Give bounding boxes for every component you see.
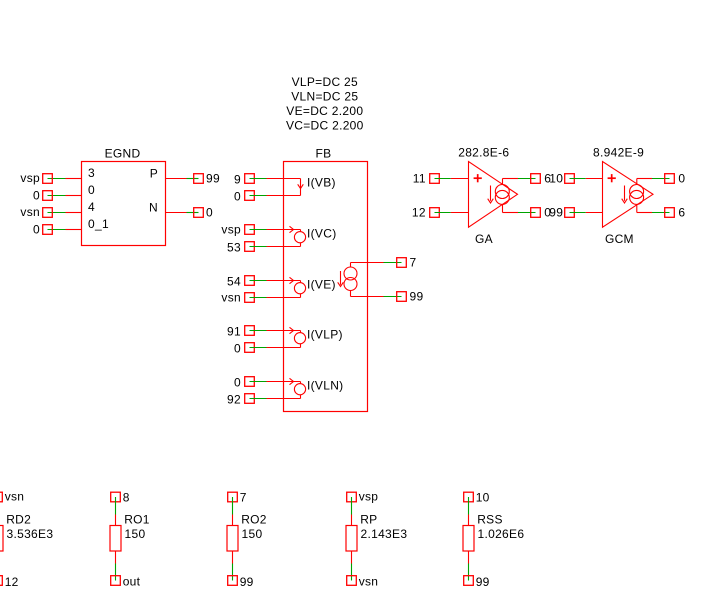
svg-text:150: 150 <box>125 527 146 541</box>
current arrow of GA <box>488 186 494 204</box>
wire 0 to I(VLN) <box>250 381 301 383</box>
wire 0 to I(VLP) <box>250 347 301 349</box>
op-amp style VCCS GCM triangle <box>603 162 654 228</box>
svg-text:3: 3 <box>88 166 95 180</box>
port 10 (input of GCM) <box>549 172 574 186</box>
wire vsn to I(VE) <box>250 297 301 299</box>
svg-text:8.942E-9: 8.942E-9 <box>593 146 644 160</box>
wire RP to vsn <box>351 551 353 581</box>
svg-text:0: 0 <box>234 341 241 355</box>
svg-text:150: 150 <box>242 527 263 541</box>
svg-text:0: 0 <box>206 206 213 220</box>
wire vsp to RP <box>351 497 353 526</box>
svg-text:VE=DC 2.200: VE=DC 2.200 <box>286 104 363 118</box>
node 7 <box>397 256 417 270</box>
port 12 (input of GA) <box>412 206 439 220</box>
port vsp <box>20 171 52 185</box>
port 99 (input of GCM) <box>549 206 574 220</box>
svg-text:0: 0 <box>234 189 241 203</box>
source circles of GA <box>495 185 509 205</box>
op-amp style VCCS GA triangle <box>469 162 518 228</box>
svg-text:vsp: vsp <box>359 489 379 503</box>
svg-text:99: 99 <box>240 575 254 589</box>
port 54 <box>227 274 254 288</box>
resistor RP body <box>346 526 357 552</box>
svg-text:53: 53 <box>227 240 241 254</box>
svg-text:out: out <box>123 575 141 589</box>
wire GA output to 0 <box>503 204 536 212</box>
svg-text:RD2: RD2 <box>6 512 31 526</box>
wire to EGND pin 4 <box>48 212 82 214</box>
svg-text:vsn: vsn <box>221 291 241 305</box>
port 91 <box>227 324 254 338</box>
port vsp <box>221 223 254 237</box>
wire 91 to I(VLP) <box>250 330 301 332</box>
resistor RSS body <box>463 526 474 552</box>
svg-text:9: 9 <box>234 172 241 186</box>
source circles of GCM <box>630 185 644 205</box>
svg-text:12: 12 <box>412 206 426 220</box>
node 10 (top of RSS) <box>464 491 490 505</box>
wire F source to node 99 <box>351 296 402 298</box>
svg-text:7: 7 <box>410 256 417 270</box>
wire 54 to I(VE) <box>250 280 301 282</box>
wire RSS to 99 <box>468 551 470 581</box>
block EGND body <box>82 162 166 246</box>
wire to EGND pin 3 <box>48 178 82 180</box>
svg-text:7: 7 <box>240 491 247 505</box>
node 99 (bottom of RSS) <box>464 575 490 589</box>
svg-text:I(VC): I(VC) <box>307 227 337 241</box>
node vsn (bottom of RP) <box>347 575 379 589</box>
wire 92 to I(VLN) <box>250 398 301 400</box>
svg-text:FB: FB <box>316 146 332 160</box>
current source F (output) <box>338 263 357 297</box>
wire 10 to RSS <box>468 497 470 526</box>
resistor RO1 body <box>110 526 121 552</box>
svg-text:4: 4 <box>88 200 95 214</box>
port vsn <box>221 291 254 305</box>
svg-text:RP: RP <box>360 512 377 526</box>
port vsn <box>20 205 52 219</box>
svg-text:I(VLN): I(VLN) <box>307 379 343 393</box>
wire 7 to RO2 <box>232 497 234 526</box>
svg-text:vsn: vsn <box>5 489 25 503</box>
wire RO1 to out <box>115 551 117 581</box>
current sense I(VB) <box>298 179 304 196</box>
svg-text:11: 11 <box>413 172 426 186</box>
node out (bottom of RO1) <box>111 575 141 589</box>
svg-text:RO1: RO1 <box>124 512 150 526</box>
svg-text:0_1: 0_1 <box>88 217 109 231</box>
svg-text:8: 8 <box>123 491 130 505</box>
wire 99 to GCM <box>570 212 603 214</box>
wire 8 to RO1 <box>115 497 117 526</box>
wire 12 to GA <box>435 212 469 214</box>
svg-text:99: 99 <box>206 172 220 186</box>
current source I(VLN) <box>290 378 306 398</box>
wire F source to node 7 <box>351 262 402 264</box>
node 6 (output of GA) <box>531 172 552 186</box>
svg-text:92: 92 <box>227 392 241 406</box>
svg-text:EGND: EGND <box>105 146 141 160</box>
plus sign of GCM <box>608 174 616 182</box>
port 53 <box>227 240 254 254</box>
current source I(VLP) <box>290 327 306 347</box>
svg-text:0: 0 <box>88 183 95 197</box>
svg-text:P: P <box>150 167 158 181</box>
wire EGND P output <box>166 178 199 180</box>
svg-text:VC=DC 2.200: VC=DC 2.200 <box>286 119 364 133</box>
resistor RD2 body <box>0 526 3 552</box>
svg-text:VLN=DC 25: VLN=DC 25 <box>291 90 358 104</box>
plus sign of GA <box>474 174 482 182</box>
node 0 (output of GCM) <box>665 172 686 186</box>
node 0 (EGND N) <box>194 206 213 220</box>
svg-text:RSS: RSS <box>477 512 503 526</box>
svg-text:91: 91 <box>227 324 241 338</box>
port 0 <box>33 189 52 203</box>
wire GCM output to 0 <box>637 179 670 185</box>
svg-text:0: 0 <box>678 172 685 186</box>
svg-text:10: 10 <box>549 172 563 186</box>
port 11 (input of GA) <box>413 172 440 186</box>
port 9 <box>234 172 254 186</box>
svg-text:I(VLP): I(VLP) <box>307 328 343 342</box>
svg-text:GCM: GCM <box>605 232 634 246</box>
svg-text:vsn: vsn <box>20 205 40 219</box>
svg-text:RO2: RO2 <box>241 512 267 526</box>
svg-text:99: 99 <box>476 575 490 589</box>
node 12 (bottom of RD2) <box>0 575 19 589</box>
port 0 <box>234 341 254 355</box>
svg-text:0: 0 <box>33 223 40 237</box>
svg-text:54: 54 <box>227 274 241 288</box>
block FB body <box>284 162 368 412</box>
svg-text:I(VB): I(VB) <box>307 176 336 190</box>
wire 0 to I(VB) <box>250 195 301 197</box>
wire vsp to I(VC) <box>250 229 301 231</box>
wire to EGND pin 0 <box>48 195 82 197</box>
node 0 (output of GA) <box>531 206 552 220</box>
svg-text:1.026E6: 1.026E6 <box>478 527 525 541</box>
wire 11 to GA <box>435 178 469 180</box>
svg-text:vsn: vsn <box>359 575 379 589</box>
node 6 (output of GCM) <box>665 206 686 220</box>
wire 9 to I(VB) <box>250 178 301 180</box>
node 7 (top of RO2) <box>228 491 247 505</box>
svg-text:99: 99 <box>410 290 424 304</box>
port 0 <box>33 223 52 237</box>
wire 10 to GCM <box>570 178 603 180</box>
svg-text:2.143E3: 2.143E3 <box>361 527 408 541</box>
wire GCM output to 6 <box>637 204 670 212</box>
wire 53 to I(VC) <box>250 246 301 248</box>
port 0 <box>234 189 254 203</box>
node 99 <box>397 290 424 304</box>
svg-text:VLP=DC 25: VLP=DC 25 <box>292 75 358 89</box>
svg-text:0: 0 <box>33 189 40 203</box>
node 99 (EGND P) <box>194 172 220 186</box>
svg-text:vsp: vsp <box>20 171 40 185</box>
port 92 <box>227 392 254 406</box>
wire to EGND pin 0_1 <box>48 229 82 231</box>
wire GA output to 6 <box>503 179 536 185</box>
current source I(VE) <box>290 277 306 297</box>
svg-text:12: 12 <box>5 575 19 589</box>
port 0 <box>234 375 254 389</box>
svg-text:99: 99 <box>549 206 563 220</box>
svg-text:3.536E3: 3.536E3 <box>7 527 54 541</box>
svg-text:N: N <box>149 201 158 215</box>
svg-text:282.8E-6: 282.8E-6 <box>458 146 509 160</box>
svg-text:6: 6 <box>678 206 685 220</box>
svg-text:I(VE): I(VE) <box>307 278 336 292</box>
svg-text:vsp: vsp <box>221 223 241 237</box>
svg-text:GA: GA <box>475 232 493 246</box>
node vsp (top of RP) <box>347 489 379 503</box>
svg-text:0: 0 <box>234 375 241 389</box>
wire EGND N output <box>166 212 199 214</box>
wire RO2 to 99 <box>232 551 234 581</box>
node 8 (top of RO1) <box>111 491 130 505</box>
current source I(VC) <box>290 226 306 246</box>
current arrow of GCM <box>622 186 628 204</box>
svg-text:10: 10 <box>476 491 490 505</box>
resistor RO2 body <box>227 526 238 552</box>
node vsn (top of RD2) <box>0 489 24 503</box>
node 99 (bottom of RO2) <box>228 575 254 589</box>
